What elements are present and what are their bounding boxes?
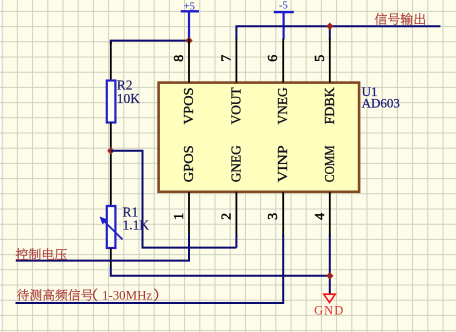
svg-text:GNEG: GNEG [229,145,244,182]
svg-text:2: 2 [219,213,234,220]
svg-text:GPOS: GPOS [182,145,197,182]
wire VOUT-FDBK signal output [236,26,440,39]
net label 信号输出 [375,13,425,25]
potentiometer R1 1.1K [100,204,150,248]
wire COMM to ground [329,235,331,294]
power +5 [181,1,199,40]
junction R2/R1/GPOS [107,147,114,154]
svg-text:VINP: VINP [276,145,291,182]
wire VINP to input [16,235,284,303]
svg-text:5: 5 [313,55,328,62]
pin 8 (VPOS) [172,39,197,125]
wire R2 to R1 [110,123,112,207]
pin 3 (VINP) [266,145,291,237]
wire R1 to GND rail [111,248,330,276]
svg-text:10K: 10K [117,91,141,106]
ground GND [314,294,344,317]
junction +5/R2/pin8 [185,37,192,44]
wire +5 to R2 [111,41,189,44]
pin 2 (GNEG) [219,145,244,236]
svg-text:1: 1 [172,213,187,220]
svg-text:COMM: COMM [323,145,338,182]
svg-text:1-30MHz: 1-30MHz [102,289,152,303]
wire GNEG stub [235,235,237,248]
pin 1 (GPOS) [172,145,197,236]
svg-text:VPOS: VPOS [182,87,197,124]
net label 待测高频信号 (1-30MHz) [17,289,93,301]
junction FDBK/output [326,23,333,30]
svg-text:GND: GND [314,304,344,318]
op-amp/IC U1 AD603 body [159,83,360,192]
wire divider junction to GNEG [111,151,237,248]
svg-text:6: 6 [266,55,281,62]
net label 控制电压 [16,248,67,260]
power -5 [274,1,294,40]
svg-text:3: 3 [266,213,281,220]
junction ground rail/COMM [326,272,333,279]
svg-text:FDBK: FDBK [323,87,338,124]
svg-text:+5: +5 [184,1,195,12]
svg-text:8: 8 [172,55,187,62]
pin 6 (VNEG) [266,39,291,125]
svg-text:1.1K: 1.1K [123,218,150,233]
wire FDBK stub [329,26,331,39]
pin 4 (COMM) [313,145,338,237]
pin 7 (VOUT) [219,39,244,125]
svg-text:7: 7 [219,55,234,62]
svg-text:VNEG: VNEG [276,87,291,124]
svg-text:AD603: AD603 [362,96,400,111]
svg-text:VOUT: VOUT [229,87,244,124]
svg-text:-5: -5 [279,1,288,12]
svg-text:4: 4 [313,213,328,220]
wire GPOS to control voltage [16,235,189,261]
pin 5 (FDBK) [313,39,338,125]
resistor R2 10K [107,42,141,123]
